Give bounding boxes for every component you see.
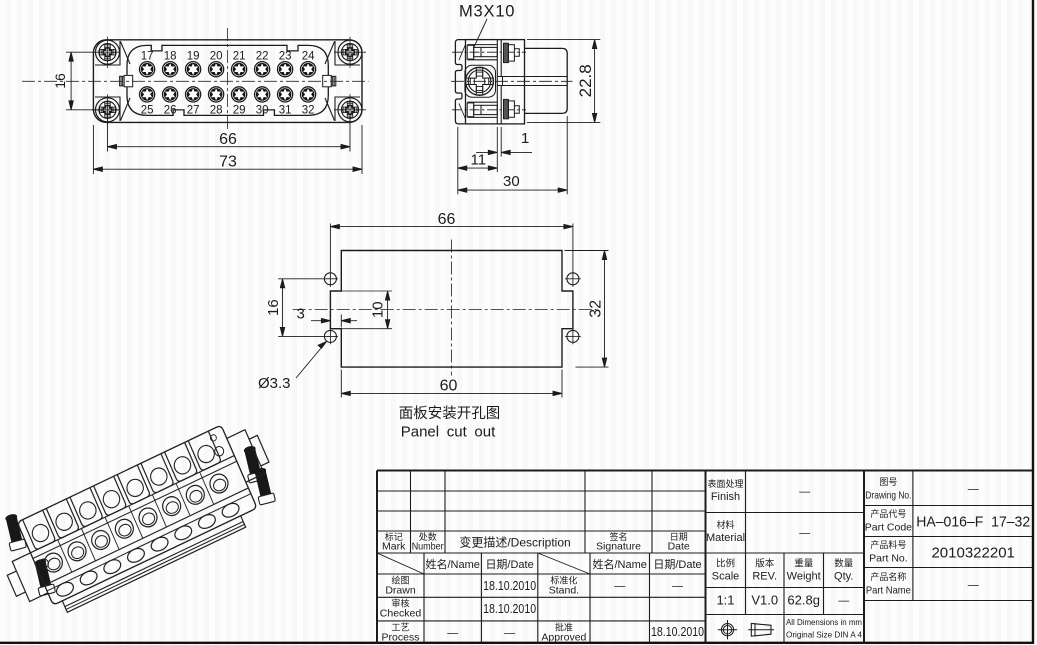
svg-text:重量: 重量 <box>794 558 814 570</box>
svg-text:Stand.: Stand. <box>549 585 579 597</box>
iso front cavity 2 <box>78 568 99 587</box>
svg-text:Date: Date <box>668 541 690 553</box>
svg-text:16: 16 <box>52 73 68 89</box>
svg-text:姓名/Name: 姓名/Name <box>592 557 646 571</box>
dimension 16 (front view left) <box>66 52 119 110</box>
svg-text:20: 20 <box>210 51 223 63</box>
iso middle cavity 2 <box>65 539 89 564</box>
notch edge extension lines <box>330 291 392 329</box>
svg-text:REV.: REV. <box>752 571 777 583</box>
pin 31 <box>278 87 293 102</box>
dimension 3 (panel) <box>311 315 357 328</box>
svg-text:28: 28 <box>210 104 223 116</box>
corner screw 2 <box>338 37 362 68</box>
corner screw 3 <box>96 94 120 125</box>
svg-text:Finish: Finish <box>711 491 740 503</box>
panel hole bottom-right <box>567 330 579 342</box>
table outer border <box>377 471 1033 644</box>
svg-text:产品名称: 产品名称 <box>870 571 906 582</box>
panel horizontal centerline <box>293 309 597 311</box>
svg-text:V1.0: V1.0 <box>751 593 778 608</box>
front view vertical centerline <box>227 28 229 131</box>
svg-text:Panel cut out: Panel cut out <box>401 424 496 441</box>
svg-text:Approved: Approved <box>541 632 586 644</box>
svg-text:Number: Number <box>412 541 444 553</box>
dimension 30 <box>458 116 567 194</box>
middle section grid <box>706 471 865 644</box>
dimension 16 (panel left) <box>278 279 338 337</box>
dimension 11 <box>458 127 498 194</box>
svg-text:—: — <box>799 486 810 498</box>
svg-text:Ø3.3: Ø3.3 <box>258 375 291 392</box>
iso face screw right <box>208 433 225 457</box>
side view cable channel lines <box>497 77 567 86</box>
svg-text:Part Name: Part Name <box>866 585 911 597</box>
iso back cavity 7 <box>165 442 198 482</box>
pin 19 <box>186 62 201 77</box>
svg-text:—: — <box>968 580 979 592</box>
svg-text:Process: Process <box>382 632 420 644</box>
svg-text:22.8: 22.8 <box>576 64 595 97</box>
panel hole bottom-left <box>324 330 336 342</box>
front view left guide tab <box>120 75 133 86</box>
iso front cavity 1 <box>54 580 75 599</box>
front view corner screws <box>96 37 363 126</box>
pin 32 <box>301 87 316 102</box>
side view guide bush <box>466 67 494 95</box>
iso front cavity 8 <box>220 501 241 520</box>
iso back cavity 1 <box>23 510 56 550</box>
pin 24 <box>301 62 316 77</box>
svg-text:29: 29 <box>233 104 246 116</box>
stud screw 2 <box>252 467 276 505</box>
dimension 73 (front view) <box>93 125 362 174</box>
svg-text:图号: 图号 <box>879 477 897 487</box>
pin 23 <box>278 62 293 77</box>
front view corner pad top-right <box>325 41 360 65</box>
side view left flange <box>455 40 465 124</box>
svg-text:18: 18 <box>164 51 177 63</box>
iso face screw left <box>38 557 50 569</box>
dimension 66 (panel) <box>330 224 573 287</box>
corner screw 4 <box>338 94 362 125</box>
front view pins <box>140 62 316 102</box>
dimension 32 (panel right) <box>565 251 609 368</box>
svg-text:3: 3 <box>297 306 305 323</box>
svg-text:产品料号: 产品料号 <box>870 539 906 550</box>
iso middle cavity 7 <box>183 482 207 507</box>
svg-text:版本: 版本 <box>755 558 775 570</box>
side view main body <box>466 40 525 124</box>
svg-text:24: 24 <box>302 51 315 63</box>
svg-text:32: 32 <box>588 300 605 318</box>
svg-text:22: 22 <box>256 51 269 63</box>
svg-text:—: — <box>447 628 458 640</box>
svg-text:—: — <box>968 484 979 496</box>
svg-text:M3X10: M3X10 <box>459 3 515 21</box>
svg-text:产品代号: 产品代号 <box>870 508 906 519</box>
pin 21 <box>232 62 247 77</box>
svg-text:—: — <box>799 528 810 540</box>
sheet bottom border <box>0 642 1034 644</box>
pin 29 <box>232 87 247 102</box>
svg-text:表面处理: 表面处理 <box>707 478 743 489</box>
svg-text:—: — <box>838 595 849 607</box>
iso front cavity 6 <box>173 523 194 542</box>
svg-text:Scale: Scale <box>712 571 740 583</box>
front view corner pad bottom-right <box>325 97 360 121</box>
svg-text:日期/Date: 日期/Date <box>653 558 701 571</box>
pin 25 <box>140 87 155 102</box>
svg-text:18.10.2010: 18.10.2010 <box>651 625 704 639</box>
svg-text:日期/Date: 日期/Date <box>485 558 533 571</box>
svg-text:Weight: Weight <box>787 571 821 583</box>
svg-text:Signature: Signature <box>596 541 641 553</box>
iso middle cavity 1 <box>41 550 65 575</box>
iso middle cavity 4 <box>112 516 136 541</box>
svg-text:面板安装开孔图: 面板安装开孔图 <box>399 404 501 422</box>
panel hole top-left <box>324 273 336 285</box>
hole centerline ticks <box>330 279 580 345</box>
side view top fixing screw M3X10 <box>467 45 497 60</box>
iso front cavity 3 <box>102 557 123 576</box>
svg-text:10: 10 <box>370 301 387 318</box>
iso front cavity 4 <box>125 546 146 565</box>
side view bottom fixing screw <box>467 102 497 117</box>
side view bottom clamp hatched block <box>504 99 520 118</box>
iso back cavity 3 <box>70 488 103 528</box>
side view flange inner lines <box>459 45 466 120</box>
side view bottom screw centerline <box>452 109 526 111</box>
dimension 1 <box>476 127 532 172</box>
iso back cavity 6 <box>141 454 174 494</box>
M3X10 leader line <box>474 19 488 48</box>
svg-text:26: 26 <box>164 104 177 116</box>
svg-text:Drawn: Drawn <box>385 585 416 597</box>
svg-text:17: 17 <box>141 51 154 63</box>
iso middle cavity 8 <box>207 471 231 496</box>
side view main centerline <box>451 80 573 82</box>
diameter 3.3 leader <box>296 342 327 379</box>
svg-text:All Dimensions in mm: All Dimensions in mm <box>786 617 862 627</box>
svg-text:1:1: 1:1 <box>716 593 734 608</box>
iso body separator lines <box>30 456 259 611</box>
svg-text:2010322201: 2010322201 <box>931 545 1014 562</box>
front view pin numbers <box>141 51 315 117</box>
iso front cavity 7 <box>196 512 217 531</box>
svg-text:19: 19 <box>187 51 200 63</box>
pin 28 <box>209 87 224 102</box>
svg-text:60: 60 <box>440 378 458 395</box>
iso end wall left <box>3 553 48 606</box>
front view corner pad bottom-left <box>95 97 130 121</box>
svg-text:—: — <box>504 628 515 640</box>
svg-text:—: — <box>672 581 683 593</box>
svg-text:Material: Material <box>706 532 745 544</box>
svg-text:1: 1 <box>521 130 529 147</box>
dimension 10 (panel) <box>385 291 389 329</box>
svg-text:18.10.2010: 18.10.2010 <box>483 579 536 593</box>
pin 26 <box>163 87 178 102</box>
panel hole top-right <box>567 273 579 285</box>
front view inner insert outline with polarizing notches <box>127 45 328 115</box>
svg-text:30: 30 <box>256 104 269 116</box>
svg-text:日期: 日期 <box>670 532 688 542</box>
iso back cavity 4 <box>94 476 127 516</box>
svg-text:Part No.: Part No. <box>869 553 908 565</box>
iso cavity dividers <box>58 472 214 572</box>
svg-text:Checked: Checked <box>380 608 422 620</box>
panel vertical centerline <box>451 240 453 376</box>
pin 18 <box>163 62 178 77</box>
iso body outline <box>17 425 257 605</box>
revision table grid <box>377 471 706 554</box>
svg-text:Part Code: Part Code <box>865 522 912 534</box>
svg-text:27: 27 <box>187 104 200 116</box>
stud screw 3 <box>3 513 27 551</box>
svg-text:姓名/Name: 姓名/Name <box>425 557 479 571</box>
iso middle cavity 6 <box>160 494 184 519</box>
projection symbol circles <box>718 620 737 639</box>
iso middle cavity 3 <box>89 528 113 553</box>
sheet right border <box>1032 0 1034 644</box>
right screws horizontal ticks <box>92 52 367 110</box>
pin 20 <box>209 62 224 77</box>
front view outer body <box>93 40 362 123</box>
svg-text:16: 16 <box>265 299 282 316</box>
pin 30 <box>255 87 270 102</box>
projection symbol cone <box>748 623 774 636</box>
svg-text:25: 25 <box>141 104 154 116</box>
svg-text:变更描述/Description: 变更描述/Description <box>459 535 570 550</box>
front view horizontal centerline <box>22 80 369 82</box>
iso skirt outline <box>62 516 245 613</box>
svg-text:Mark: Mark <box>382 541 406 553</box>
panel cutout outline <box>330 251 573 368</box>
svg-text:31: 31 <box>279 104 292 116</box>
iso middle cavity 5 <box>136 505 160 530</box>
side view top screw centerline <box>452 51 526 53</box>
pin 27 <box>186 87 201 102</box>
svg-text:Original Size DIN A 4: Original Size DIN A 4 <box>786 630 862 640</box>
svg-text:73: 73 <box>219 154 237 171</box>
signature table grid <box>377 553 706 643</box>
svg-text:材料: 材料 <box>716 519 734 530</box>
stud screw 1 <box>241 445 265 483</box>
pin 17 <box>140 62 155 77</box>
svg-text:比例: 比例 <box>716 558 735 570</box>
iso back cavity 8 <box>188 431 221 471</box>
dimension 66 (front view) <box>108 113 351 152</box>
svg-text:—: — <box>614 581 625 593</box>
iso front cavity 5 <box>149 535 170 554</box>
side view mating face lines <box>496 40 498 124</box>
iso back cavity 2 <box>46 499 79 539</box>
corner screw 1 <box>96 37 120 68</box>
right section grid <box>864 471 1033 601</box>
iso back cavity 5 <box>117 465 150 505</box>
iso end wall right <box>227 426 272 482</box>
svg-text:30: 30 <box>503 173 520 190</box>
side view guide bush frame <box>465 65 496 97</box>
svg-text:11: 11 <box>471 152 487 169</box>
diagonal cell lines <box>377 553 590 574</box>
pin 22 <box>255 62 270 77</box>
front view right guide tab <box>323 75 336 86</box>
svg-text:Drawing No.: Drawing No. <box>865 490 911 502</box>
svg-text:数量: 数量 <box>834 558 854 570</box>
svg-text:处数: 处数 <box>419 531 437 542</box>
svg-text:签名: 签名 <box>609 531 627 542</box>
svg-text:66: 66 <box>438 211 456 228</box>
svg-text:18.10.2010: 18.10.2010 <box>483 602 536 616</box>
svg-text:标记: 标记 <box>385 531 403 542</box>
side view top clamp hatched block <box>504 43 520 62</box>
iso lengthwise ridge lines <box>33 461 261 614</box>
svg-text:62.8g: 62.8g <box>787 593 820 608</box>
side view rear body <box>525 48 568 113</box>
svg-text:66: 66 <box>219 131 237 148</box>
svg-text:Qty.: Qty. <box>834 571 853 583</box>
dimension 60 (panel) <box>341 370 562 398</box>
dimension 22.8 <box>527 40 600 123</box>
front view corner pad top-left <box>95 41 130 65</box>
svg-text:HA–016–F 17–32: HA–016–F 17–32 <box>916 514 1030 531</box>
svg-text:21: 21 <box>233 51 246 63</box>
svg-text:23: 23 <box>279 51 292 63</box>
svg-text:32: 32 <box>302 104 315 116</box>
stud screw 4 <box>32 558 56 596</box>
